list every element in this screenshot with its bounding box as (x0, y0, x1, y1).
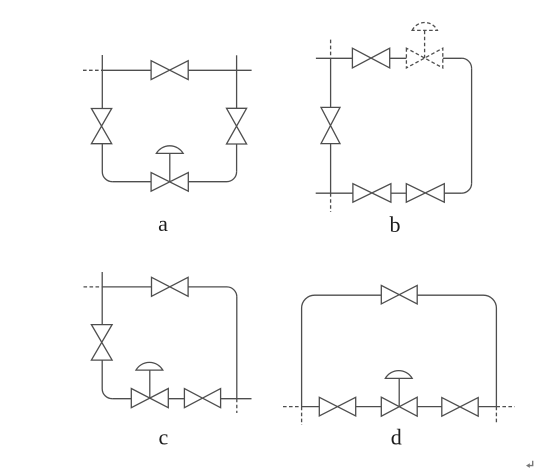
wire d left vertical with top corner (302, 295, 382, 406)
wire a right vertical lower (236, 144, 238, 172)
control valve CVa (a, bottom) body (151, 173, 188, 192)
node B1 dashed stub above top-left junction (330, 40, 332, 59)
node A1 dashed inlet stub (a, top-left) (83, 69, 102, 71)
control valve CVc stem (149, 370, 151, 398)
gate valve Vb2 (b, left) (321, 107, 340, 143)
gate valve Vd1 (d, top bypass) (381, 285, 417, 304)
gate valve Vc3 (c, bottom) (184, 389, 220, 408)
control valve CVc (c, bottom) body (131, 389, 168, 408)
wire a top-right tick (236, 55, 238, 70)
wire d bottom pipe segment 3 (417, 406, 442, 408)
node D4 dashed stub below right junction (495, 407, 497, 423)
wire a left vertical upper (101, 70, 103, 108)
control valve CVd (d, bottom middle) body (381, 397, 417, 416)
wire b bottom pipe middle segment (391, 192, 406, 194)
gate valve Vb4 (b, bottom right) (406, 184, 444, 203)
wire b top pipe middle segment (390, 57, 407, 59)
svg-text:b: b (390, 212, 401, 237)
control valve CVc actuator dome (136, 362, 163, 370)
gate valve Vd2 (d, bottom left) (319, 397, 355, 416)
control valve CVb dashed stem (424, 30, 426, 58)
node C2 dashed stub below bottom-right junction (236, 399, 238, 413)
svg-text:a: a (158, 211, 168, 236)
gate valve Vd3 (d, bottom right) (442, 398, 478, 417)
control valve CVb (b, top) dashed body (406, 48, 442, 68)
wire a top-left tick (101, 55, 103, 70)
gate valve Va3 (a, right) (227, 108, 247, 144)
wire a top pipe left segment (102, 69, 151, 71)
svg-text:d: d (391, 425, 402, 450)
wire c top pipe left segment (102, 286, 151, 288)
gate valve Va2 (a, left) (91, 109, 111, 144)
wire c bottom pipe segment 2 (168, 398, 184, 400)
control valve CVa actuator dome (156, 146, 183, 154)
wire c left vertical lower with corner (102, 360, 112, 399)
node D1 dashed inlet stub (d, bottom-left) (283, 406, 302, 408)
wire c top pipe right with corner (188, 287, 237, 297)
paragraph return mark (526, 461, 533, 468)
wire b bottom pipe left end (316, 192, 353, 194)
wire b bottom-right corner (462, 183, 472, 193)
node C1 dashed inlet stub (c, top-left) (84, 286, 103, 288)
wire c bottom pipe segment 1 (112, 398, 131, 400)
wire d top pipe right with corner and right vertical (417, 295, 496, 406)
control valve CVb dashed actuator dome (412, 23, 437, 31)
wire b right vertical (471, 68, 473, 183)
wire d bottom pipe segment 2 (356, 406, 382, 408)
wire c bottom pipe right segment (221, 398, 252, 400)
wire d bottom pipe segment 4 (478, 406, 496, 408)
wire a bottom pipe left segment (112, 181, 151, 183)
gate valve Vb3 (b, bottom left) (353, 184, 391, 203)
gate valve Vb1 (b, top) (352, 48, 389, 68)
wire a left vertical lower with corner (102, 144, 112, 182)
wire b left vertical upper (330, 58, 332, 107)
wire b top pipe left end (316, 57, 353, 59)
node B2 dashed stub below bottom-left junction (330, 193, 332, 212)
gate valve Vc2 (c, left) (91, 325, 112, 361)
node D3 dashed stub below left junction (301, 407, 303, 425)
gate valve Vc1 (c, top) (152, 277, 189, 296)
wire b bottom pipe right segment (444, 192, 461, 194)
node D2 dashed outlet stub (d, bottom-right) (496, 406, 514, 408)
wire a bottom pipe right segment with corner (188, 172, 236, 182)
wire b top pipe right with corner (443, 58, 472, 68)
control valve CVd actuator dome (385, 371, 412, 379)
wire b left vertical lower (330, 144, 332, 194)
wire c top-left tick and vertical upper (101, 272, 103, 325)
control valve CVd stem (398, 378, 400, 406)
wire a right vertical upper (236, 70, 238, 108)
wire d bottom pipe segment 1 (302, 406, 320, 408)
wire a top pipe right segment (188, 69, 251, 71)
wire c right vertical (236, 297, 238, 399)
gate valve Va1 (a, top bypass) (151, 61, 188, 80)
svg-text:c: c (159, 425, 169, 450)
control valve CVa stem (169, 153, 171, 182)
